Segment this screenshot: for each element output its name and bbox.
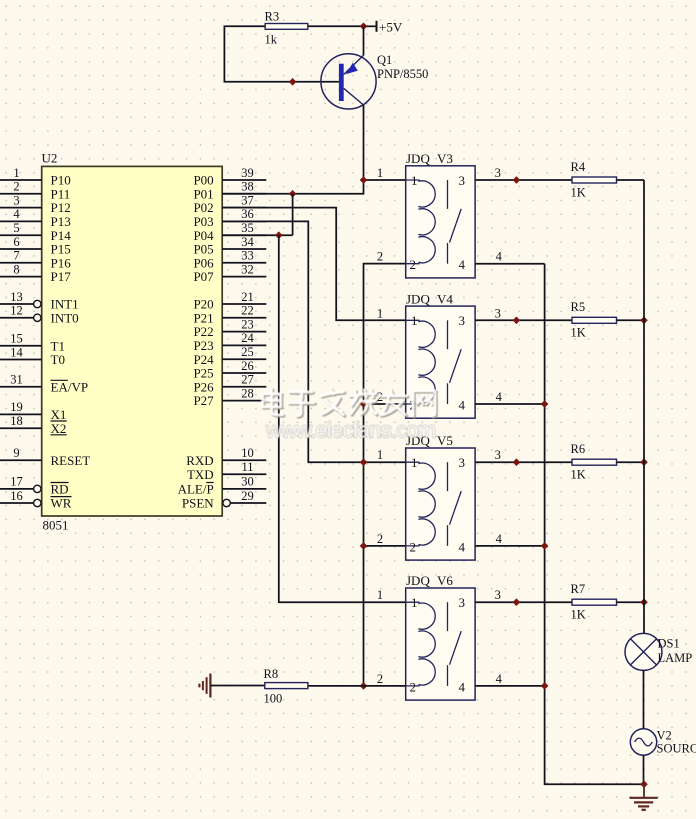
svg-text:P10: P10 [51,173,71,188]
wire P03 down to relay V5 pin 1 [222,221,406,462]
junction pin4 bus V4 [541,400,549,408]
svg-text:1: 1 [377,448,383,462]
pin 4 P13 (left) [0,220,42,222]
pin 37 P02 (right) [222,207,266,209]
svg-text:V3: V3 [437,151,453,166]
svg-text:T0: T0 [51,352,65,367]
pin 32 P07 (right) [222,276,266,278]
svg-text:2: 2 [410,679,417,694]
svg-text:JDQ: JDQ [406,291,430,306]
svg-text:1: 1 [377,306,383,320]
svg-text:1K: 1K [571,468,586,482]
relay V4 pin4 wire [475,403,544,405]
svg-text:X2: X2 [51,421,67,436]
svg-text:SOURCE: SOURCE [657,742,696,756]
svg-text:2: 2 [377,250,383,264]
svg-text:Q1: Q1 [377,53,392,67]
svg-text:1K: 1K [571,326,586,340]
svg-text:PNP/8550: PNP/8550 [377,67,428,81]
pin 26 P25 (right) [222,372,266,374]
svg-text:P27: P27 [193,393,214,408]
svg-text:JDQ: JDQ [406,151,430,166]
svg-text:R3: R3 [265,10,280,24]
transistor Q1 circle [321,54,376,109]
svg-text:33: 33 [241,249,254,263]
pin 27 P26 (right) [222,386,266,388]
wire R3 right to +5V junction [308,25,364,27]
pin 38 P01 (right) [222,193,266,195]
resistor R3 [265,24,308,30]
pin 14 T0 (left) [0,359,42,361]
pin 29 PSEN (right) [223,499,230,506]
svg-text:31: 31 [10,373,23,387]
relay V5 pin3 wire [475,461,572,463]
pin 16 WR (left) [0,502,34,504]
svg-text:1: 1 [377,166,383,180]
wire ground to R8 [210,685,264,687]
junction P04 [275,231,283,239]
svg-text:www.elecfans.com: www.elecfans.com [265,418,435,443]
pin 10 RXD (right) [222,459,266,461]
svg-text:1k: 1k [265,33,278,47]
svg-text:3: 3 [459,313,466,328]
svg-text:3: 3 [459,455,466,470]
watermark (decorative) [263,389,437,443]
svg-text:39: 39 [241,166,254,180]
svg-text:4: 4 [496,672,503,686]
svg-text:4: 4 [496,250,503,264]
svg-text:1: 1 [13,166,19,180]
junction V3 pin1 / collector [360,176,368,184]
svg-text:P11: P11 [51,186,71,201]
svg-text:1: 1 [411,173,418,188]
svg-text:T1: T1 [51,338,65,353]
pin 9 RESET (left) [0,459,42,461]
pin 5 P14 (left) [0,234,42,236]
svg-text:9: 9 [13,446,19,460]
svg-text:R8: R8 [264,667,279,681]
svg-text:PSEN: PSEN [182,496,214,511]
svg-text:100: 100 [264,692,283,706]
svg-text:36: 36 [241,207,254,221]
Q1 base bar [339,64,344,101]
Q1 emitter line [344,55,364,74]
svg-text:4: 4 [459,257,466,272]
svg-text:V5: V5 [437,433,453,448]
svg-text:16: 16 [10,489,23,503]
svg-text:4: 4 [459,539,466,554]
svg-text:DS1: DS1 [658,637,680,651]
svg-text:38: 38 [241,180,254,194]
svg-text:3: 3 [495,448,501,462]
svg-text:3: 3 [459,595,466,610]
svg-text:P23: P23 [193,338,213,353]
relay JDQ V3 [406,166,475,278]
junction pin4 bus V5 [541,542,549,550]
svg-text:1: 1 [411,313,418,328]
svg-text:2: 2 [13,180,19,194]
svg-text:8051: 8051 [43,518,69,533]
pin 30 ALE/P (right) [222,488,266,490]
svg-text:15: 15 [10,332,23,346]
svg-text:V2: V2 [657,729,672,743]
svg-text:1: 1 [411,455,418,470]
svg-text:P20: P20 [193,297,213,312]
svg-text:22: 22 [241,304,254,318]
svg-text:4: 4 [496,532,503,546]
svg-text:RD: RD [51,482,69,497]
svg-text:34: 34 [241,235,254,249]
svg-text:R7: R7 [571,582,586,596]
junction base/P01 [289,190,297,198]
Q1 emitter arrow (PNP) [346,63,358,74]
svg-text:R6: R6 [571,442,586,456]
pin 21 P20 (right) [222,303,266,305]
svg-text:4: 4 [496,390,503,404]
pin 6 P15 (left) [0,248,42,250]
wire R4 to right bus [617,179,645,181]
junction V5 pin2 [360,542,368,550]
wire P02 down to relay V4 pin 1 [222,208,406,321]
svg-text:P26: P26 [193,379,214,394]
svg-text:TXD: TXD [187,467,214,482]
svg-text:P22: P22 [193,324,213,339]
pin 22 P21 (right) [222,317,266,319]
svg-text:6: 6 [13,235,19,249]
junction ground node [640,780,648,788]
pin 31 EA/VP (left) [0,386,42,388]
relay V4 pin3 wire [475,319,572,321]
svg-text:RESET: RESET [51,453,91,468]
AC source V2 [630,729,656,755]
svg-text:12: 12 [10,304,23,318]
svg-text:2: 2 [410,257,417,272]
relay JDQ V6 [406,588,475,700]
svg-text:P04: P04 [193,228,214,243]
svg-text:17: 17 [10,475,23,489]
power +5V bar symbol [364,25,377,27]
svg-text:5: 5 [13,221,19,235]
relay V3 pin3 wire [475,179,572,181]
svg-text:EA/VP: EA/VP [51,379,89,394]
wire V4 pin2 stub [364,403,406,405]
svg-text:27: 27 [241,373,254,387]
wire P04 row [222,234,292,236]
pin 34 P05 (right) [222,248,266,250]
wire lamp to source [643,670,645,729]
svg-text:WR: WR [51,496,72,511]
svg-text:INT0: INT0 [51,310,79,325]
junction at +5V node [360,23,368,31]
pin 18 X2 (left) [0,427,42,429]
pin 7 P16 (left) [0,262,42,264]
svg-text:29: 29 [241,489,254,503]
U2 8051 microcontroller body [42,166,223,516]
pin 3 P12 (left) [0,207,42,209]
svg-text:JDQ: JDQ [406,573,430,588]
svg-text:2: 2 [377,672,383,686]
pin 11 TXD (right) [222,473,266,475]
svg-text:P17: P17 [51,269,72,284]
svg-text:V6: V6 [437,573,453,588]
svg-text:INT1: INT1 [51,297,79,312]
svg-text:11: 11 [241,460,253,474]
pin 23 P22 (right) [222,331,266,333]
wire relay V3 pin1 horizontal [364,179,406,181]
svg-text:1: 1 [411,595,418,610]
svg-text:30: 30 [241,475,254,489]
svg-text:P07: P07 [193,269,214,284]
svg-text:+5V: +5V [379,20,403,35]
svg-text:P00: P00 [193,173,213,188]
ground symbol bottom right [630,784,658,810]
pin 19 X1 (left) [0,413,42,415]
svg-text:P25: P25 [193,366,213,381]
svg-text:7: 7 [13,249,19,263]
junction coil bus at V5 pin1 row [360,458,368,466]
svg-text:3: 3 [495,306,501,320]
svg-text:21: 21 [241,290,254,304]
relay V5 pin4 wire [475,545,544,547]
svg-text:P05: P05 [193,242,213,257]
svg-text:3: 3 [13,193,19,207]
svg-text:18: 18 [10,414,23,428]
resistor R5 [572,317,617,323]
svg-text:4: 4 [459,397,466,412]
svg-text:3: 3 [495,166,501,180]
lamp DS1 [625,633,662,670]
wire R7 to right bus [617,601,645,603]
svg-text:P13: P13 [51,214,71,229]
svg-text:3: 3 [459,173,466,188]
svg-text:10: 10 [241,446,254,460]
ground symbol left of R8 [199,674,210,698]
svg-text:P03: P03 [193,214,213,229]
svg-text:RXD: RXD [186,453,213,468]
wire source to ground junction [643,755,645,784]
svg-text:R5: R5 [571,300,586,314]
pin 28 P27 (right) [222,400,266,402]
Q1 collector line [344,88,364,105]
relay JDQ V4 [406,306,475,418]
wire R3 left down to Q1 base [224,26,339,82]
junction V4 pin2 [360,400,368,408]
svg-text:P21: P21 [193,310,213,325]
wire +5V down to Q1 emitter [363,26,365,55]
junction pin4 bus V6 [541,682,549,690]
pin 33 P06 (right) [222,262,266,264]
relay V3 pin4 wire [475,263,544,265]
wire P01 row to relay V3 pin1 riser [222,180,363,194]
pin 8 P17 (left) [0,276,42,278]
resistor R4 [572,177,617,183]
pin 15 T1 (left) [0,345,42,347]
svg-text:26: 26 [241,359,254,373]
pin 35 P04 (right) [222,234,266,236]
junction on base wire [289,78,297,86]
pin 1 P10 (left) [0,179,42,181]
pin 24 P23 (right) [222,344,266,346]
svg-text:X1: X1 [51,407,67,422]
relay V6 pin4 wire [475,685,544,687]
svg-text:P15: P15 [51,242,71,257]
wire coil-common bus vertical [364,264,406,686]
wire base vertical P01 to P04 [292,194,294,235]
svg-text:1K: 1K [571,608,586,622]
pin 17 RD (left) [0,488,34,490]
svg-text:P02: P02 [193,200,213,215]
svg-text:4: 4 [459,679,466,694]
wire right bus vertical [643,180,645,633]
wire pin4 bus down to ground row [545,264,644,785]
wire Q1 collector down to relay V3 pin 1 [363,105,365,180]
wire R5 to right bus [617,319,645,321]
svg-text:P16: P16 [51,255,72,270]
wire R8 to relay V6 pin 2 [308,685,406,687]
wire R6 to right bus [617,461,645,463]
svg-text:V4: V4 [437,291,453,306]
resistor R6 [572,459,617,465]
pin 13 INT1 (left) [0,303,34,305]
pin 36 P03 (right) [222,220,266,222]
svg-text:P14: P14 [51,228,72,243]
svg-text:R4: R4 [571,160,586,174]
wire P04 down to relay V6 pin 1 [279,235,406,602]
svg-text:32: 32 [241,262,254,276]
pin 2 P11 (left) [0,193,42,195]
svg-text:14: 14 [10,345,23,359]
svg-text:P24: P24 [193,352,214,367]
svg-text:LAMP: LAMP [658,651,693,665]
svg-text:19: 19 [10,400,23,414]
svg-text:1: 1 [377,588,383,602]
svg-text:P12: P12 [51,200,71,215]
svg-text:4: 4 [13,207,20,221]
svg-text:1K: 1K [571,185,586,199]
svg-text:8: 8 [13,262,19,276]
svg-text:U2: U2 [42,151,58,166]
pin 12 INT0 (left) [0,317,34,319]
svg-text:25: 25 [241,345,254,359]
svg-text:3: 3 [495,588,501,602]
svg-text:13: 13 [10,290,23,304]
svg-text:2: 2 [377,532,383,546]
svg-text:2: 2 [410,539,417,554]
svg-text:24: 24 [241,331,254,345]
relay V6 pin3 wire [475,601,572,603]
pin 25 P24 (right) [222,358,266,360]
svg-text:35: 35 [241,221,254,235]
resistor R8 [265,683,308,689]
junction coil bus at R8 row [360,682,368,690]
wire V5 pin2 stub [364,545,406,547]
svg-text:P01: P01 [193,186,213,201]
svg-text:P06: P06 [193,255,214,270]
svg-text:37: 37 [241,193,254,207]
relay JDQ V5 [406,448,475,560]
svg-text:28: 28 [241,386,254,400]
pin 39 P00 (right) [222,179,266,181]
resistor R7 [572,599,617,605]
svg-text:ALE/P: ALE/P [178,482,214,497]
svg-text:23: 23 [241,317,254,331]
